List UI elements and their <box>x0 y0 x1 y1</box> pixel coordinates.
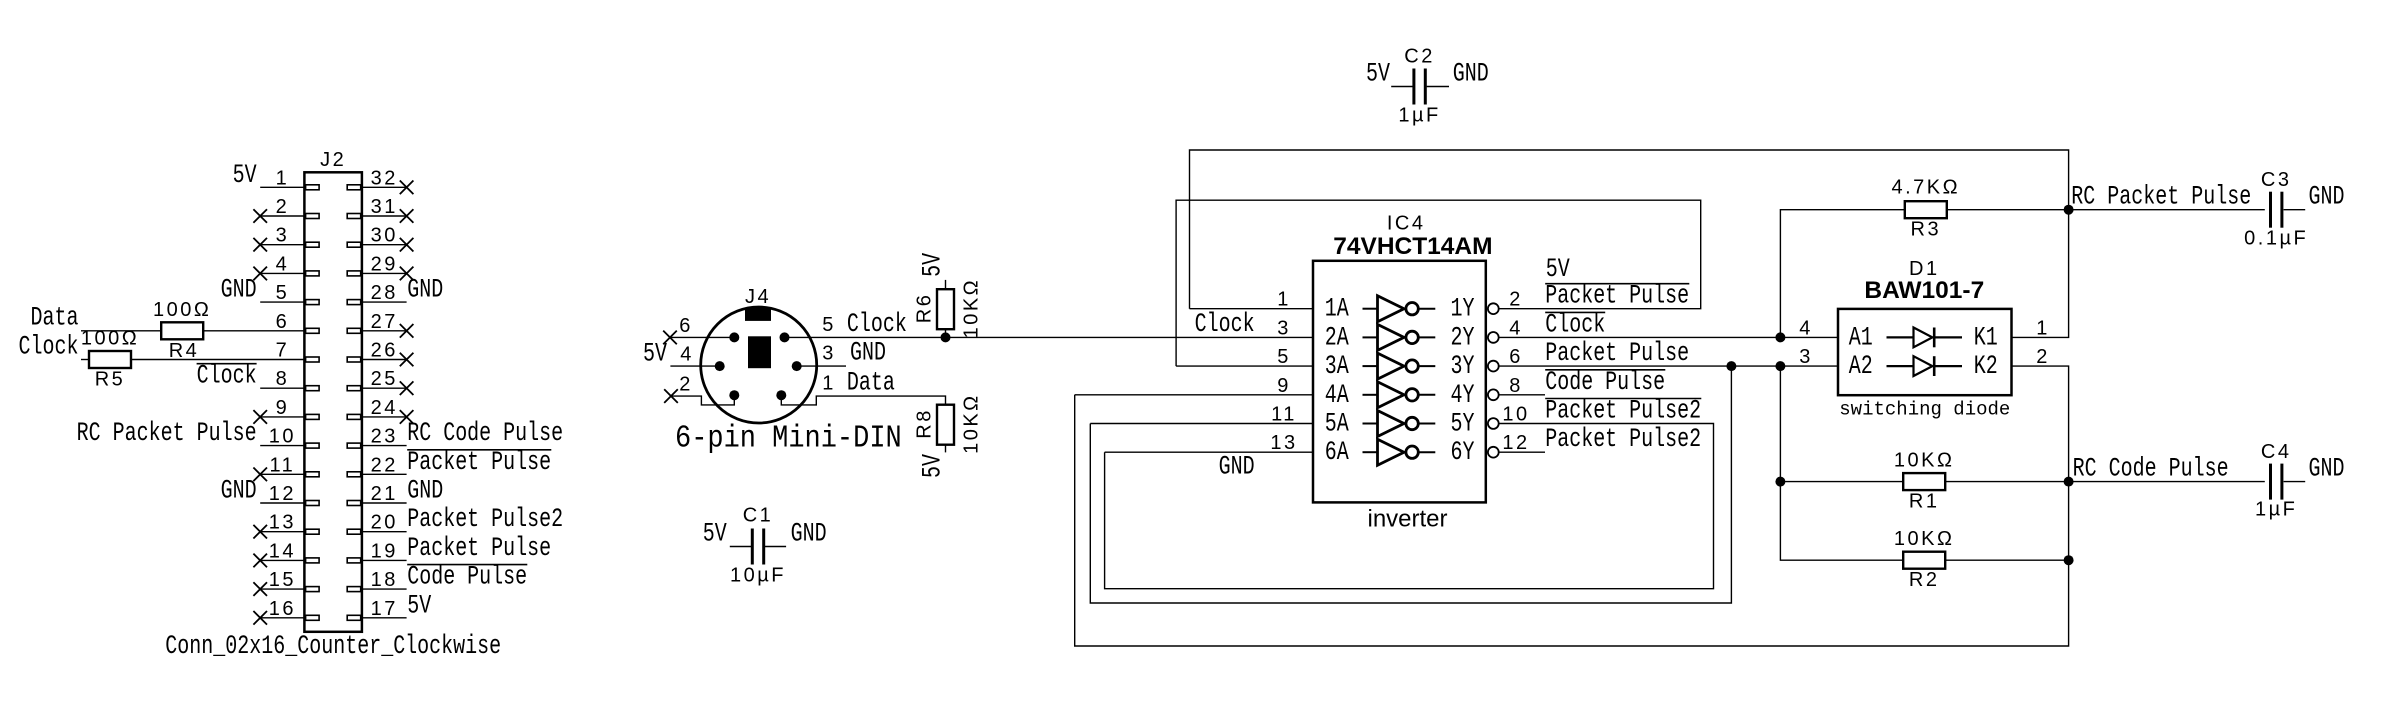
svg-text:C4: C4 <box>2261 441 2292 463</box>
junction dot R6/Clock <box>941 332 951 342</box>
wire J2 pin 27 lead <box>362 330 407 332</box>
overbar for net label at J2 pin 18 <box>407 564 527 566</box>
wire J4 pin 2 stepped lead <box>671 395 734 405</box>
J4 pin 3 contact <box>792 361 802 371</box>
svg-text:5V: 5V <box>407 591 432 622</box>
svg-text:5V: 5V <box>233 160 258 191</box>
no-connect X on J2 pin 4 <box>253 267 267 281</box>
svg-text:RC Packet Pulse: RC Packet Pulse <box>2071 182 2251 213</box>
wire J2 pin 15 lead <box>260 588 304 590</box>
svg-text:Packet Pulse: Packet Pulse <box>1545 281 1689 312</box>
svg-text:3: 3 <box>822 343 836 365</box>
svg-text:6: 6 <box>1509 346 1523 368</box>
svg-text:5V: 5V <box>1366 59 1391 90</box>
svg-text:31: 31 <box>371 196 398 218</box>
overbar for Clock at IC4 pin 4 <box>1545 311 1605 313</box>
svg-text:10µF: 10µF <box>730 565 786 587</box>
svg-text:inverter: inverter <box>1367 506 1447 533</box>
svg-text:1Y: 1Y <box>1451 294 1475 325</box>
wire J2 pin 31 lead <box>362 215 407 217</box>
wire C1 to GND <box>765 546 786 548</box>
wire IC4 pin 9 lead <box>1075 394 1313 396</box>
svg-text:10: 10 <box>269 426 296 448</box>
IC4 output inversion circle pin 12 <box>1488 447 1499 458</box>
svg-text:3: 3 <box>1799 346 1813 368</box>
svg-text:6: 6 <box>679 315 693 337</box>
wire IC4 pin 12 lead <box>1498 451 1545 453</box>
wire J2 pin 13 lead <box>260 531 304 533</box>
svg-text:switching diode: switching diode <box>1839 398 2010 420</box>
overbar for Code Pulse at IC4 pin 8 <box>1545 369 1665 371</box>
no-connect X on J2 pin 11 <box>253 468 267 482</box>
svg-text:10: 10 <box>1502 404 1529 426</box>
no-connect X on J2 pin 27 <box>400 324 414 338</box>
svg-text:12: 12 <box>269 483 296 505</box>
resistor R2 body <box>1903 552 1945 569</box>
connector J2 body <box>304 172 362 632</box>
wire R3 left to 2Y net <box>1780 210 1904 338</box>
resistor R5 body <box>89 351 131 368</box>
svg-text:K1: K1 <box>1974 323 1998 354</box>
no-connect X on J2 pin 14 <box>253 554 267 568</box>
svg-text:2A: 2A <box>1325 323 1350 354</box>
svg-text:IC4: IC4 <box>1387 213 1426 235</box>
svg-text:Packet Pulse: Packet Pulse <box>1545 339 1689 370</box>
IC4 output inversion circle pin 4 <box>1488 332 1499 343</box>
junction dot 3Y loop <box>1726 361 1736 371</box>
diode D1 body <box>1838 309 2012 395</box>
svg-text:GND: GND <box>407 275 443 306</box>
svg-text:8: 8 <box>276 368 290 390</box>
no-connect X on J2 pin 16 <box>253 611 267 625</box>
svg-text:2Y: 2Y <box>1451 323 1475 354</box>
J4 pin 4 contact <box>715 361 725 371</box>
svg-text:RC Code Pulse: RC Code Pulse <box>2073 454 2229 485</box>
svg-text:16: 16 <box>269 598 296 620</box>
resistor R6 body <box>937 289 954 329</box>
wire J2 pin 28 lead <box>362 301 407 303</box>
svg-text:4: 4 <box>680 344 694 366</box>
no-connect X on J2 pin 15 <box>253 582 267 596</box>
IC4 output inversion circle pin 2 <box>1488 303 1499 314</box>
wire J2 pin 1 lead <box>260 186 304 188</box>
svg-text:20: 20 <box>371 512 398 534</box>
svg-text:14: 14 <box>269 540 296 562</box>
wire IC4 pin 11 lead <box>1090 423 1313 425</box>
wire R3 right to RC Packet Pulse <box>1947 209 2069 211</box>
wire J2 pin 3 lead <box>260 244 304 246</box>
wire J2 pin 18 lead <box>362 588 407 590</box>
svg-text:Packet Pulse2: Packet Pulse2 <box>1545 396 1701 427</box>
svg-text:3Y: 3Y <box>1451 352 1475 383</box>
junction dot R2 right <box>2064 555 2074 565</box>
wire 3Y net to R1/R2 left vertical <box>1780 366 1903 560</box>
wire J2 pin 24 lead <box>362 416 407 418</box>
junction dot RC Packet Pulse <box>2064 205 2074 215</box>
svg-text:C1: C1 <box>743 505 774 527</box>
no-connect X on J2 pin 29 <box>400 267 414 281</box>
svg-text:Clock: Clock <box>1545 310 1605 341</box>
connector J2 right pin stubs <box>347 185 361 190</box>
wire Clock to R5 <box>81 359 89 361</box>
wire J2 pin 4 lead <box>260 272 304 274</box>
svg-text:1µF: 1µF <box>1398 105 1440 127</box>
svg-text:13: 13 <box>1270 432 1297 454</box>
connector J4 Mini-DIN circle <box>701 307 817 423</box>
svg-text:25: 25 <box>371 368 398 390</box>
wire J2 pin 19 lead <box>362 559 407 561</box>
svg-text:GND: GND <box>791 519 827 550</box>
capacitor C3 plates <box>2269 192 2272 228</box>
svg-text:R2: R2 <box>1909 569 1940 591</box>
wire R4 to J2 pin 6 <box>203 330 304 332</box>
svg-text:3A: 3A <box>1325 352 1350 383</box>
svg-text:2: 2 <box>2036 346 2050 368</box>
wire J2 pin 30 lead <box>362 244 407 246</box>
wire J2 pin 23 lead <box>362 445 407 447</box>
wire R5 to J2 pin 7 <box>131 359 304 361</box>
svg-text:Code Pulse: Code Pulse <box>407 562 527 593</box>
wire J2 pin 29 lead <box>362 272 407 274</box>
svg-text:30: 30 <box>371 225 398 247</box>
capacitor C1 plates <box>751 529 754 565</box>
J4 pin 6 contact <box>729 332 739 342</box>
svg-text:27: 27 <box>371 311 398 333</box>
wire J2 pin 8 lead <box>260 387 304 389</box>
svg-text:1: 1 <box>2036 317 2050 339</box>
svg-text:4.7KΩ: 4.7KΩ <box>1892 177 1961 199</box>
svg-text:R6: R6 <box>914 293 936 324</box>
svg-text:9: 9 <box>276 397 290 419</box>
no-connect X on J2 pin 25 <box>400 381 414 395</box>
svg-text:Packet Pulse2: Packet Pulse2 <box>1545 425 1701 456</box>
wire J2 pin 26 lead <box>362 359 407 361</box>
wire Data from J4 pin 1 to R8 <box>781 395 945 405</box>
svg-text:32: 32 <box>371 167 398 189</box>
svg-text:Packet Pulse: Packet Pulse <box>407 447 551 478</box>
resistor R3 body <box>1905 201 1947 218</box>
wire loop RC Packet Pulse to 1A input (outer top) <box>1190 150 2069 309</box>
wire R1 left <box>1780 481 1903 483</box>
wire 5V to C1 <box>730 546 751 548</box>
wire J2 pin 5 lead <box>260 301 304 303</box>
wire C2 to GND <box>1427 86 1449 88</box>
wire below R8 <box>945 445 947 453</box>
wire C3 to GND <box>2284 209 2306 211</box>
svg-text:5V: 5V <box>918 453 949 478</box>
svg-text:RC Packet Pulse: RC Packet Pulse <box>77 419 257 450</box>
svg-text:R3: R3 <box>1911 219 1942 241</box>
IC4 output inversion circle pin 10 <box>1488 418 1499 429</box>
svg-text:GND: GND <box>1219 452 1255 483</box>
wire R1 right to RC Code Pulse <box>1945 481 2068 483</box>
wire J2 pin 2 lead <box>260 215 304 217</box>
svg-text:5A: 5A <box>1325 409 1350 440</box>
wire J4 pin 6 lead <box>670 336 734 338</box>
svg-text:GND: GND <box>221 275 257 306</box>
wire loop 3Y to 5A (middle bottom) <box>1090 366 1731 603</box>
wire IC4 pin 1 lead <box>1190 308 1314 310</box>
wire J2 pin 22 lead <box>362 473 407 475</box>
svg-text:2: 2 <box>679 374 693 396</box>
wire 5V to C2 <box>1391 86 1412 88</box>
svg-text:GND: GND <box>407 476 443 507</box>
wire Clock from J4 pin 5 to IC4 pin 3 <box>785 336 1314 338</box>
no-connect X on J2 pin 32 <box>400 181 414 195</box>
J4 pin 1 contact <box>776 390 786 400</box>
svg-text:4: 4 <box>1509 317 1523 339</box>
wire J2 pin 14 lead <box>260 559 304 561</box>
J4 pin 2 contact <box>729 390 739 400</box>
wire IC4 pin 6 (3Y) to D1 A2 <box>1498 365 1838 367</box>
wire J2 pin 17 lead <box>362 617 407 619</box>
J4 pin 5 contact <box>780 332 790 342</box>
wire loop 1Y output to RC network (top) <box>1176 200 1701 366</box>
svg-text:Packet Pulse2: Packet Pulse2 <box>407 505 563 536</box>
wire J4 pin 3 lead <box>797 365 846 367</box>
wire IC4 pin 8 lead <box>1498 394 1545 396</box>
svg-text:13: 13 <box>269 512 296 534</box>
wire J2 pin 9 lead <box>260 416 304 418</box>
svg-text:74VHCT14AM: 74VHCT14AM <box>1333 233 1492 260</box>
svg-text:2: 2 <box>1509 289 1523 311</box>
wire RC Code Pulse to C4 <box>2069 481 2265 483</box>
wire R2 right <box>1945 559 2068 561</box>
capacitor C2 plates <box>1412 69 1415 105</box>
no-connect X on J2 pin 31 <box>400 209 414 223</box>
wire J4 pin 4 lead <box>670 365 719 367</box>
overbar for net label at J2 pin 22 <box>407 449 551 451</box>
overbar for Clock label at J2 pin 8 <box>197 363 257 365</box>
svg-text:Data: Data <box>31 303 79 334</box>
wire J2 pin 16 lead <box>260 617 304 619</box>
svg-text:Clock: Clock <box>847 309 907 340</box>
svg-text:5: 5 <box>822 314 836 336</box>
svg-text:10KΩ: 10KΩ <box>1894 528 1955 550</box>
svg-text:K2: K2 <box>1974 352 1998 383</box>
svg-text:5: 5 <box>1277 346 1291 368</box>
svg-text:15: 15 <box>269 569 296 591</box>
svg-text:6A: 6A <box>1325 438 1350 469</box>
junction dot R1 left <box>1775 477 1785 487</box>
svg-text:5Y: 5Y <box>1451 409 1475 440</box>
svg-text:1: 1 <box>276 167 290 189</box>
svg-text:3: 3 <box>276 225 290 247</box>
svg-text:C2: C2 <box>1404 46 1435 68</box>
svg-text:J2: J2 <box>320 149 346 171</box>
junction dot 3Y/vertical <box>1775 361 1785 371</box>
no-connect X on J2 pin 24 <box>400 410 414 424</box>
svg-text:5: 5 <box>276 282 290 304</box>
wire loop 5Y to 6A (inner bottom) <box>1105 424 1714 589</box>
wire RC Packet Pulse to C3 <box>2069 209 2265 211</box>
J4 top notch <box>745 308 771 321</box>
capacitor C4 plates <box>2269 464 2272 500</box>
no-connect X on J4 pin 6 <box>663 331 677 345</box>
wire D1 K1 lead <box>2012 210 2069 338</box>
wire IC4 pin 4 (2Y) to D1 A1 <box>1498 336 1838 338</box>
svg-text:10KΩ: 10KΩ <box>1894 450 1955 472</box>
wire R6 to Clock junction <box>945 329 947 337</box>
wire J2 pin 10 lead <box>260 445 304 447</box>
svg-text:GND: GND <box>2309 454 2345 485</box>
wire J2 pin 21 lead <box>362 502 407 504</box>
svg-text:1: 1 <box>1277 289 1291 311</box>
svg-text:26: 26 <box>371 340 398 362</box>
svg-text:1: 1 <box>822 373 836 395</box>
svg-text:R4: R4 <box>169 340 200 362</box>
overbar for Packet Pulse2 at IC4 pin 10 <box>1545 398 1701 400</box>
svg-text:6-pin Mini-DIN: 6-pin Mini-DIN <box>675 421 902 456</box>
resistor R1 body <box>1903 473 1945 490</box>
junction dot R3/2Y <box>1775 332 1785 342</box>
wire J2 pin 11 lead <box>260 473 304 475</box>
wire J2 pin 12 lead <box>260 502 304 504</box>
wire Data to R4 <box>81 330 161 332</box>
svg-text:10KΩ: 10KΩ <box>961 278 983 339</box>
IC4 output inversion circle pin 6 <box>1488 361 1499 372</box>
svg-text:18: 18 <box>371 569 398 591</box>
svg-text:7: 7 <box>276 340 290 362</box>
svg-text:C3: C3 <box>2261 169 2292 191</box>
overbar for Packet Pulse at IC4 pin 2 <box>1545 283 1689 285</box>
svg-text:22: 22 <box>371 454 398 476</box>
svg-text:GND: GND <box>850 338 886 369</box>
wire J2 pin 32 lead <box>362 186 407 188</box>
svg-text:29: 29 <box>371 253 398 275</box>
no-connect X on J2 pin 30 <box>400 238 414 252</box>
junction dot RC Code Pulse <box>2064 477 2074 487</box>
wire D1 K2 lead <box>2012 366 2069 482</box>
svg-text:Clock: Clock <box>197 361 257 392</box>
svg-text:Data: Data <box>847 368 895 399</box>
wire J2 pin 25 lead <box>362 387 407 389</box>
resistor R8 body <box>937 405 954 445</box>
svg-text:21: 21 <box>371 483 398 505</box>
IC4 output inversion circle pin 8 <box>1488 389 1499 400</box>
wire loop RC Code Pulse to 4A input (outer bottom) <box>1075 395 2069 646</box>
svg-text:A2: A2 <box>1849 352 1873 383</box>
no-connect X on J2 pin 2 <box>253 209 267 223</box>
svg-text:R8: R8 <box>914 408 936 439</box>
svg-text:11: 11 <box>1271 404 1297 426</box>
svg-text:RC Code Pulse: RC Code Pulse <box>407 419 563 450</box>
svg-text:BAW101-7: BAW101-7 <box>1864 277 1984 304</box>
svg-text:1A: 1A <box>1325 294 1350 325</box>
svg-text:17: 17 <box>371 598 398 620</box>
svg-text:8: 8 <box>1509 375 1523 397</box>
svg-text:6: 6 <box>276 311 290 333</box>
svg-text:12: 12 <box>1502 432 1529 454</box>
svg-text:Clock: Clock <box>1195 309 1255 340</box>
svg-text:28: 28 <box>371 282 398 304</box>
wire IC4 pin 5 lead <box>1176 365 1313 367</box>
connector J2 left pin stubs <box>306 185 320 190</box>
svg-text:100Ω: 100Ω <box>81 328 139 350</box>
svg-text:5V: 5V <box>918 252 949 277</box>
svg-text:4: 4 <box>1799 317 1813 339</box>
IC4 body <box>1313 261 1486 503</box>
svg-text:GND: GND <box>2309 182 2345 213</box>
svg-text:J4: J4 <box>745 286 771 308</box>
svg-text:Clock: Clock <box>19 332 79 363</box>
svg-text:A1: A1 <box>1849 323 1873 354</box>
svg-text:5V: 5V <box>643 339 668 370</box>
svg-text:R5: R5 <box>95 369 126 391</box>
wire IC4 pin 13 lead <box>1105 451 1313 453</box>
wire 5V stem above R6 <box>945 280 947 289</box>
svg-text:3: 3 <box>1277 317 1291 339</box>
svg-text:2: 2 <box>276 196 290 218</box>
svg-text:GND: GND <box>1453 59 1489 90</box>
svg-text:6Y: 6Y <box>1451 438 1475 469</box>
no-connect X on J2 pin 13 <box>253 525 267 539</box>
svg-text:4Y: 4Y <box>1451 380 1475 411</box>
no-connect X on J4 pin 2 <box>664 389 678 403</box>
resistor R4 body <box>161 322 203 339</box>
svg-text:9: 9 <box>1277 375 1291 397</box>
svg-text:4A: 4A <box>1325 380 1350 411</box>
svg-text:4: 4 <box>276 253 290 275</box>
svg-text:GND: GND <box>221 476 257 507</box>
J4 center key rectangle <box>748 336 771 368</box>
svg-text:1µF: 1µF <box>2255 499 2297 521</box>
svg-text:Packet Pulse: Packet Pulse <box>407 533 551 564</box>
svg-text:Code Pulse: Code Pulse <box>1545 367 1665 398</box>
wire J2 pin 20 lead <box>362 531 407 533</box>
svg-text:R1: R1 <box>1909 491 1940 513</box>
svg-text:24: 24 <box>371 397 398 419</box>
svg-text:10KΩ: 10KΩ <box>961 393 983 454</box>
svg-text:23: 23 <box>371 426 398 448</box>
svg-text:19: 19 <box>371 540 398 562</box>
svg-text:100Ω: 100Ω <box>153 299 211 321</box>
svg-text:11: 11 <box>270 454 296 476</box>
no-connect X on J2 pin 3 <box>253 238 267 252</box>
no-connect X on J2 pin 9 <box>253 410 267 424</box>
wire C4 to GND <box>2284 481 2306 483</box>
svg-text:5V: 5V <box>703 519 728 550</box>
svg-text:0.1µF: 0.1µF <box>2244 227 2308 249</box>
no-connect X on J2 pin 26 <box>400 353 414 367</box>
svg-text:Conn_02x16_Counter_Clockwise: Conn_02x16_Counter_Clockwise <box>165 631 501 662</box>
